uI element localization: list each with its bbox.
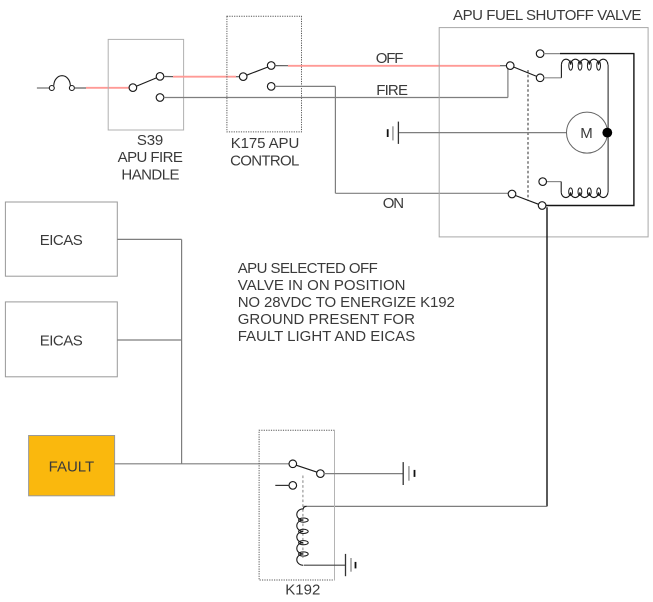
- ground (K192 switch): [403, 462, 414, 485]
- valve lower switch: [508, 190, 546, 209]
- wire EICAS1 to bus: [117, 238, 181, 240]
- svg-text:NO 28VDC TO ENERGIZE K192: NO 28VDC TO ENERGIZE K192: [238, 294, 455, 311]
- svg-text:S39: S39: [137, 132, 163, 149]
- mechanical link valve switches: [527, 70, 529, 201]
- relay K175 box: [227, 16, 302, 132]
- svg-text:APU SELECTED OFF: APU SELECTED OFF: [238, 260, 378, 277]
- wire to K192 coil horizontal: [304, 505, 547, 507]
- EICAS box 1: [5, 202, 117, 276]
- svg-text:K192: K192: [285, 581, 320, 598]
- mechanical link K192: [302, 476, 304, 559]
- wire ground to motor: [399, 132, 567, 134]
- svg-text:ON: ON: [383, 195, 404, 212]
- svg-text:GROUND PRESENT FOR: GROUND PRESENT FOR: [238, 311, 415, 328]
- circuit breaker: [49, 76, 74, 91]
- ground (motor): [388, 122, 399, 144]
- relay K192 box: [259, 430, 334, 580]
- wire to open coil: [544, 65, 562, 78]
- wire left stub into breaker: [37, 87, 50, 89]
- coil close (lower): [561, 188, 608, 198]
- wire K192 coil to ground: [304, 564, 346, 566]
- relay switch K192: [275, 460, 324, 489]
- valve upper switch: [506, 50, 543, 82]
- svg-text:VALVE IN ON POSITION: VALVE IN ON POSITION: [238, 277, 406, 294]
- svg-text:FAULT LIGHT AND EICAS: FAULT LIGHT AND EICAS: [238, 328, 416, 345]
- switch S39 box: [108, 39, 183, 130]
- valve box: [439, 28, 648, 237]
- wire breaker to S39 (dark stub): [74, 87, 86, 89]
- svg-text:HANDLE: HANDLE: [121, 166, 179, 183]
- contact close coil: [539, 178, 547, 186]
- wire FAULT to K192 switch: [115, 463, 290, 465]
- coil open (upper): [561, 59, 607, 70]
- junction dot motor to coil rail: [602, 128, 612, 138]
- wire coil rail vertical: [607, 65, 609, 193]
- svg-text:FAULT: FAULT: [49, 458, 95, 475]
- svg-text:K175 APU: K175 APU: [231, 135, 299, 152]
- note text block: [238, 260, 455, 345]
- svg-text:M: M: [580, 125, 593, 142]
- svg-text:OFF: OFF: [376, 50, 404, 67]
- wire OFF (red) K175 to valve switch common: [275, 65, 507, 67]
- wire K192 contact to ground: [324, 473, 403, 475]
- wire ON from K175 lower contact to valve lower switch: [275, 86, 509, 193]
- ground (K192 coil): [346, 554, 356, 576]
- svg-text:EICAS: EICAS: [40, 332, 83, 349]
- switch S39: [129, 73, 164, 102]
- wire valve lower contact down to K192 coil (black): [546, 207, 548, 506]
- FAULT light box: [29, 436, 115, 496]
- wire valve top contact to right rail (black): [544, 53, 635, 55]
- wire EICAS bus vertical: [181, 239, 183, 463]
- wire right rail (black): [546, 54, 634, 206]
- EICAS box 2: [5, 302, 117, 377]
- svg-text:CONTROL: CONTROL: [230, 153, 299, 170]
- wire to close coil: [546, 182, 561, 193]
- svg-text:EICAS: EICAS: [40, 232, 83, 249]
- wire S39 upper contact to K175 common (red): [164, 76, 240, 78]
- wire EICAS2 to bus: [117, 339, 181, 341]
- svg-text:FIRE: FIRE: [376, 82, 408, 99]
- svg-text:APU FUEL SHUTOFF VALVE: APU FUEL SHUTOFF VALVE: [453, 7, 641, 24]
- wire FIRE from S39 lower contact to valve switch common: [164, 69, 508, 98]
- relay contacts K175: [239, 62, 275, 90]
- svg-text:APU FIRE: APU FIRE: [118, 149, 183, 166]
- relay coil K192: [297, 506, 308, 565]
- wire 28VDC hot (red) breaker to S39 common: [86, 87, 129, 89]
- motor M: [567, 112, 608, 153]
